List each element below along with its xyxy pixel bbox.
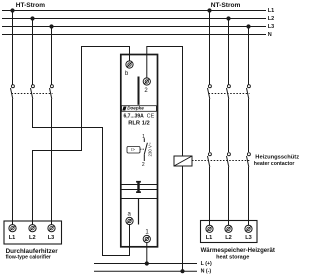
svg-text:heat storage: heat storage xyxy=(216,254,249,260)
svg-text:CE: CE xyxy=(147,114,155,120)
svg-text:2: 2 xyxy=(142,162,145,168)
svg-text:L1: L1 xyxy=(9,235,16,241)
svg-text:N (-): N (-) xyxy=(201,269,212,275)
svg-text:L1: L1 xyxy=(268,8,274,14)
svg-text:L3: L3 xyxy=(268,24,274,30)
svg-text:HT-Strom: HT-Strom xyxy=(16,2,45,9)
svg-text:1: 1 xyxy=(142,134,145,140)
svg-text:I>: I> xyxy=(131,147,135,152)
svg-text:L2: L2 xyxy=(225,235,232,241)
svg-text:Wärmespeicher-Heizgerät: Wärmespeicher-Heizgerät xyxy=(201,248,275,254)
svg-text:L2: L2 xyxy=(268,16,274,22)
svg-text:flow-type calorifier: flow-type calorifier xyxy=(6,254,51,260)
svg-text:L (+): L (+) xyxy=(201,261,212,267)
svg-text:RLR 1/2: RLR 1/2 xyxy=(128,120,150,126)
svg-text:L3: L3 xyxy=(245,235,252,241)
svg-text:6,7...39A: 6,7...39A xyxy=(124,114,145,120)
svg-text:230 V~: 230 V~ xyxy=(147,142,152,156)
svg-text:L1: L1 xyxy=(206,235,213,241)
svg-text:N: N xyxy=(268,32,272,38)
svg-text:Heizungsschütz: Heizungsschütz xyxy=(255,154,299,160)
svg-text:L3: L3 xyxy=(48,235,55,241)
svg-text:Doepke: Doepke xyxy=(127,106,144,111)
svg-text:L2: L2 xyxy=(29,235,36,241)
svg-text:NT-Strom: NT-Strom xyxy=(211,2,241,9)
svg-text:heater contactor: heater contactor xyxy=(254,161,295,167)
